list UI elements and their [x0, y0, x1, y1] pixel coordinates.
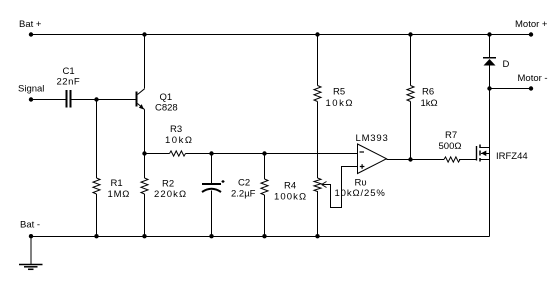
svg-text:IRFZ44: IRFZ44 [496, 151, 528, 162]
resistor R1 [93, 178, 100, 194]
node: junction bottom rail / Rv [315, 234, 319, 238]
wiper arrow of Rv [322, 182, 327, 188]
node: junction emitter/R2/R3 [142, 151, 146, 155]
svg-text:Bat +: Bat + [19, 19, 42, 30]
node: Bat - terminal [29, 234, 33, 238]
node: junction bottom rail / R4 [262, 234, 266, 238]
svg-text:R1: R1 [111, 178, 123, 189]
svg-text:Motor -: Motor - [518, 73, 548, 84]
resistor R3 [170, 151, 186, 156]
svg-text:C2: C2 [238, 178, 250, 189]
op-amp U1 LM393 [358, 144, 387, 174]
wire: op-amp output to R7 [387, 159, 445, 161]
svg-text:R7: R7 [445, 130, 457, 141]
wire: Rv bottom lead [317, 191, 319, 237]
resistor R4 [261, 179, 268, 195]
transistor Q1 [136, 89, 145, 110]
svg-text:R3: R3 [170, 124, 182, 135]
wire: Rv wiper to op-amp non-inverting input [322, 167, 358, 208]
wire: MOSFET drain-source vertical and source to bottom rail [489, 148, 491, 237]
svg-text:22nF: 22nF [57, 77, 81, 88]
resistor R7 [444, 157, 460, 162]
svg-text:R2: R2 [162, 179, 174, 190]
node: junction top rail / R6 [408, 32, 412, 36]
wire: Rv top lead [317, 154, 319, 179]
wire: R6 bottom lead [410, 102, 412, 160]
svg-text:R4: R4 [284, 181, 296, 192]
resistor R2 [141, 178, 148, 194]
wire: R3 left lead [145, 153, 170, 155]
svg-text:C1: C1 [63, 66, 75, 77]
node: junction output / R6 [408, 157, 412, 161]
node: Signal terminal [29, 97, 33, 101]
svg-text:500Ω: 500Ω [439, 141, 462, 152]
transistor Q2 MOSFET IRFZ44 [477, 145, 490, 162]
capacitor C2 electrolytic [202, 180, 225, 192]
wire: C1 to Q1 base, with R1 tap [72, 99, 137, 101]
node: Motor - junction [487, 86, 491, 90]
wire: R5 bottom lead to inverting wire [317, 102, 319, 154]
wire: C2 bottom lead [211, 191, 213, 237]
svg-text:100kΩ: 100kΩ [274, 192, 307, 203]
wire: C2 top lead [211, 154, 213, 184]
wire: R4 top lead [264, 154, 266, 180]
node: junction top rail / Q1 collector [142, 32, 146, 36]
wire: R6 bottom lead to op-amp output [410, 35, 412, 86]
svg-text:C828: C828 [155, 103, 178, 114]
node: junction bottom rail / C2 [209, 234, 213, 238]
svg-text:R6: R6 [422, 87, 434, 98]
wire: diode anode down to MOSFET drain [489, 66, 491, 148]
node: junction bottom rail / R2 [142, 234, 146, 238]
node: junction R3 wire / R4 [262, 151, 266, 155]
wire: R3 to op-amp inverting input [186, 153, 358, 155]
svg-text:Signal: Signal [18, 84, 44, 95]
node: junction bottom rail / R1 [94, 234, 98, 238]
resistor R6 [407, 86, 414, 102]
svg-text:Rυ: Rυ [355, 178, 367, 189]
resistor R5 [314, 86, 321, 102]
svg-text:R5: R5 [333, 87, 345, 98]
svg-text:220kΩ: 220kΩ [154, 189, 187, 200]
svg-text:Motor +: Motor + [515, 19, 548, 30]
wire: Signal to C1 [31, 99, 66, 101]
svg-text:Bat -: Bat - [20, 220, 40, 231]
node: junction R3 wire / C2 [209, 151, 213, 155]
ground [19, 237, 43, 270]
svg-text:10kΩ: 10kΩ [326, 98, 354, 109]
svg-text:2.2µF: 2.2µF [231, 189, 256, 200]
wire: top rail Bat+ to Motor+ [31, 34, 531, 36]
wire: R5 top lead [317, 35, 319, 86]
node: junction top rail / diode D cathode [487, 32, 491, 36]
svg-text:1MΩ: 1MΩ [108, 189, 131, 200]
wire: R2 top lead [144, 154, 146, 179]
node: Motor - terminal [529, 86, 533, 90]
node: Motor + terminal [529, 32, 533, 36]
node: junction top rail / R5 [315, 32, 319, 36]
node: junction C1/R1/Q1 base [94, 97, 98, 101]
wire: R4 bottom lead [264, 195, 266, 237]
svg-text:Q1: Q1 [160, 92, 173, 103]
svg-text:10kΩ/25%: 10kΩ/25% [335, 188, 386, 199]
wire: R2 bottom lead [144, 194, 146, 237]
svg-text:10kΩ: 10kΩ [165, 135, 193, 146]
node: Bat + terminal [29, 32, 33, 36]
svg-text:LM393: LM393 [356, 133, 389, 144]
wire: Q1 collector to top rail [144, 35, 146, 89]
capacitor C1 [66, 90, 72, 108]
wire: R1 top lead [96, 100, 98, 179]
wire: R1 bottom lead [96, 194, 98, 237]
diode D [483, 58, 496, 66]
wire: R7 to MOSFET gate [459, 159, 477, 161]
wire: bottom rail Bat- [31, 236, 490, 238]
wire: Motor - stub [490, 88, 532, 90]
wire: diode cathode to top rail [489, 35, 491, 58]
svg-text:D: D [503, 59, 510, 70]
wire: Q1 emitter down to R2/R3 node [144, 110, 146, 154]
potentiometer Rv [314, 178, 321, 191]
svg-text:1kΩ: 1kΩ [421, 98, 438, 109]
